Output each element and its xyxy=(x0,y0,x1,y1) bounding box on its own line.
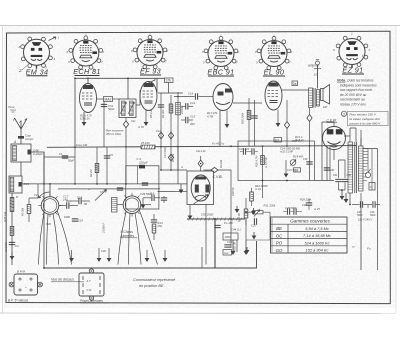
wire y170 left of osc box xyxy=(161,169,187,171)
label EBC 91 xyxy=(207,68,234,77)
resistor R14 xyxy=(152,221,163,240)
tube socket EZ91 xyxy=(333,32,371,69)
misc labels left xyxy=(4,193,51,252)
scan page left edge xyxy=(2,26,4,313)
HT tap wire xyxy=(371,149,373,191)
extra caps row above CV2 xyxy=(117,183,148,190)
PU vertical lead xyxy=(214,219,216,268)
resistor R25 xyxy=(3,198,14,236)
bus labels xyxy=(76,139,301,147)
lamp wire extension xyxy=(317,79,319,89)
tube socket EF93 xyxy=(131,33,169,69)
svg-text:220 pF: 220 pF xyxy=(138,161,148,165)
capacitor C19 column xyxy=(251,100,257,135)
connector B.P. (side view) xyxy=(9,270,42,296)
junction dots extra xyxy=(43,169,351,269)
resistor PU rotated xyxy=(233,240,238,252)
IF coil column x178 xyxy=(176,92,184,171)
capacitor C4 xyxy=(9,242,19,248)
AF patch labels xyxy=(300,198,320,212)
note Commutateur xyxy=(133,278,175,288)
output transformer T2 xyxy=(309,88,320,108)
ref box 2a xyxy=(292,81,298,86)
EBC91 cathode wire xyxy=(219,111,221,147)
power transformer TR xyxy=(348,142,363,193)
ground below EBC91 xyxy=(225,111,230,129)
antenna xyxy=(14,118,28,136)
chassis bottom rail xyxy=(44,241,257,268)
svg-text:1000: 1000 xyxy=(64,215,70,219)
diamond on osc output wire xyxy=(204,167,232,248)
ground below EL90 xyxy=(276,110,281,128)
svg-text:Terre: Terre xyxy=(8,105,15,109)
padder C6 xyxy=(141,192,160,205)
label filtre xyxy=(106,129,124,136)
svg-text:C39: C39 xyxy=(303,158,308,161)
transformer taps xyxy=(363,149,378,271)
ground in detector box xyxy=(284,160,289,178)
label ECH 81 xyxy=(73,67,101,76)
wire EBC91 to EL90 grid xyxy=(233,102,262,104)
wire bus y184 xyxy=(22,183,187,185)
PU hatched line xyxy=(187,218,245,221)
label 5 Chass Lamelles xyxy=(120,230,137,238)
EF93 anode top wire xyxy=(149,78,169,93)
ref box E7 xyxy=(274,138,282,143)
mains caps C45 C46 xyxy=(352,201,380,221)
transformer ground xyxy=(344,193,349,203)
left vertical rail x44 xyxy=(43,152,45,228)
wires from EM34 indicator xyxy=(322,122,334,160)
transformer top wires xyxy=(344,136,361,146)
input coil L2 xyxy=(9,176,29,193)
diamond below output transformer xyxy=(307,108,312,146)
B+ bus xyxy=(47,146,356,148)
antenna coil L1 xyxy=(11,144,43,162)
ground below EF93 xyxy=(144,110,149,127)
AVC cap column xyxy=(104,147,114,184)
oscillator tube top view C.V.BL xyxy=(191,175,210,201)
EM34 left wire down xyxy=(321,122,323,180)
left rail wire xyxy=(11,193,13,265)
tube EBC91 (schematic top view) xyxy=(213,84,233,111)
terre mark xyxy=(8,105,16,112)
table Gammes couvertes xyxy=(271,217,348,253)
capacitor C43 xyxy=(224,245,230,247)
wire T1 to EF93 grid xyxy=(136,91,140,105)
wire anode top bus xyxy=(75,78,165,147)
cap C1 on left link xyxy=(44,152,75,163)
tube EL90 (schematic) xyxy=(265,81,282,110)
caps C28 xyxy=(283,206,302,215)
cap C49b near CV2 xyxy=(140,192,167,203)
wire into osc box xyxy=(175,191,187,193)
svg-text:C49 5000: C49 5000 xyxy=(140,192,153,196)
rotary switch wafer S1b xyxy=(118,193,158,265)
wire CV1 area to bus xyxy=(37,184,39,198)
capacitor C15 xyxy=(181,115,196,127)
capacitor C14 xyxy=(181,101,196,110)
tube ECH81 (schematic) xyxy=(80,84,97,121)
resistor R21 column xyxy=(241,98,251,135)
AVC resistor column xyxy=(89,147,99,184)
R26 column with rotated labels xyxy=(255,146,268,198)
inner chassis line verticals xyxy=(201,247,203,268)
svg-text:m 25: m 25 xyxy=(314,207,320,211)
fuse box xyxy=(369,183,375,191)
label Prises antennes xyxy=(80,299,109,303)
PU box R33 xyxy=(223,233,238,240)
wire anode to output transformer xyxy=(282,89,309,91)
junction dots on bus xyxy=(74,145,310,148)
wire grid to switch xyxy=(49,184,51,197)
trimmer C17 xyxy=(59,195,78,209)
border frame xyxy=(6,31,390,303)
tube socket EL90 xyxy=(255,34,293,70)
diamond with dot above osc xyxy=(198,156,203,171)
AF bottom: volume pot xyxy=(247,204,276,217)
series resistor on bus xyxy=(141,145,155,149)
grounds below osc box xyxy=(188,205,206,265)
wire grid line y96.5 xyxy=(174,92,213,100)
capacitor C51 xyxy=(101,104,115,111)
oscillator block box xyxy=(187,171,214,205)
tube EF93 (schematic) xyxy=(140,82,157,111)
svg-text:R28 220k: R28 220k xyxy=(300,198,312,202)
screen wire y93 xyxy=(158,92,183,94)
mains leads xyxy=(361,205,371,271)
wire right column x330 xyxy=(329,146,331,180)
resistor beside S1a xyxy=(21,198,39,222)
transformer top leads xyxy=(350,128,361,146)
wire column x161 xyxy=(158,93,164,170)
resistor column x171 xyxy=(161,95,174,170)
junction dots top bus xyxy=(74,77,129,79)
detector sub-box xyxy=(238,141,315,181)
variable arrow across osc tube xyxy=(194,195,209,205)
label B.P. 5e vitesse xyxy=(8,299,34,303)
scan page bottom edge xyxy=(0,312,396,315)
ground below ECH81 xyxy=(82,112,87,126)
Nota text block xyxy=(337,79,377,107)
ground left of osc xyxy=(141,198,146,209)
label EZ 91 xyxy=(342,66,364,75)
capacitor on PU lead xyxy=(214,225,220,227)
label R17 xyxy=(207,111,218,119)
grounds right pair xyxy=(227,220,248,255)
cap column right of detector box xyxy=(324,146,335,180)
extend R20 C19 columns xyxy=(249,135,255,146)
trimmer diamond x171 xyxy=(168,154,173,161)
ground arrows PU xyxy=(235,206,257,254)
transformer to chassis wires xyxy=(350,193,361,208)
wire from L1 to grid xyxy=(31,152,44,184)
wire y189 xyxy=(58,188,160,190)
rotary switch wafer S1a xyxy=(38,192,71,265)
trimmer C18 xyxy=(66,196,90,207)
capacitor C7 xyxy=(151,214,157,222)
tube socket ECH81 xyxy=(67,33,105,72)
connector prises antennes xyxy=(79,269,104,300)
scan page top edge xyxy=(0,25,400,27)
scan page right edge xyxy=(395,26,397,313)
svg-text:m 0,1: m 0,1 xyxy=(255,187,262,191)
grounds above chassis rail xyxy=(69,248,167,262)
PU box lower xyxy=(223,250,232,256)
labels R10 xyxy=(255,184,268,191)
ground below filter caps xyxy=(340,190,345,200)
svg-text:13: 13 xyxy=(314,73,318,77)
oscillator coil L3 xyxy=(102,198,124,235)
diamond below EL90 xyxy=(284,100,289,146)
volume control with switch xyxy=(237,198,257,228)
box MAJ xyxy=(97,97,120,102)
tube socket EM34 xyxy=(18,36,60,74)
chassis left vertical xyxy=(43,228,45,268)
filter caps pair xyxy=(333,160,352,190)
label EF 93 xyxy=(140,67,161,76)
ref box 17b xyxy=(165,78,174,83)
IF transformer T1 xyxy=(119,99,136,118)
wire pot to chassis xyxy=(246,212,270,240)
ground xyxy=(10,252,15,260)
bottom edge extension xyxy=(315,180,335,182)
label Vue de dessus xyxy=(51,278,84,282)
voltage selector xyxy=(365,169,370,178)
cap C32 xyxy=(306,199,312,210)
label EM 34 xyxy=(26,67,49,76)
label C.E.Bl xyxy=(327,119,338,123)
cap C19 on fan xyxy=(64,215,83,223)
label R20 R18 xyxy=(295,135,304,142)
label EL 90 xyxy=(263,68,285,77)
svg-text:C40: C40 xyxy=(330,169,335,172)
loudspeaker HP xyxy=(321,85,330,110)
circled note 3 xyxy=(341,111,388,126)
wire into osc from CV2 xyxy=(158,191,176,193)
C39 column in box right xyxy=(303,146,313,181)
tuning indicator EM34 circle xyxy=(323,127,346,150)
pilot lamp between EL90 and EZ91 xyxy=(308,59,321,79)
svg-text:C19: C19 xyxy=(78,219,83,223)
wire extensions below bus xyxy=(75,147,178,184)
tube socket EBC91 xyxy=(202,34,240,70)
variable cap arrow near CV1 xyxy=(95,190,107,201)
ref box 34 xyxy=(294,168,301,173)
capacitor C4 220pF xyxy=(137,157,148,168)
C51 column wire xyxy=(103,102,105,148)
pot cluster R19 xyxy=(287,155,303,173)
caps row in detector box xyxy=(239,147,300,155)
resistor R12 xyxy=(250,188,254,206)
misc labels middle xyxy=(88,108,235,196)
trimmer capacitor Cap.compr xyxy=(18,134,34,145)
oscillator coil assembly box xyxy=(126,166,159,209)
ground left of osc box xyxy=(179,184,184,194)
padder diamond below T1 xyxy=(123,118,128,148)
wire xyxy=(20,162,22,176)
